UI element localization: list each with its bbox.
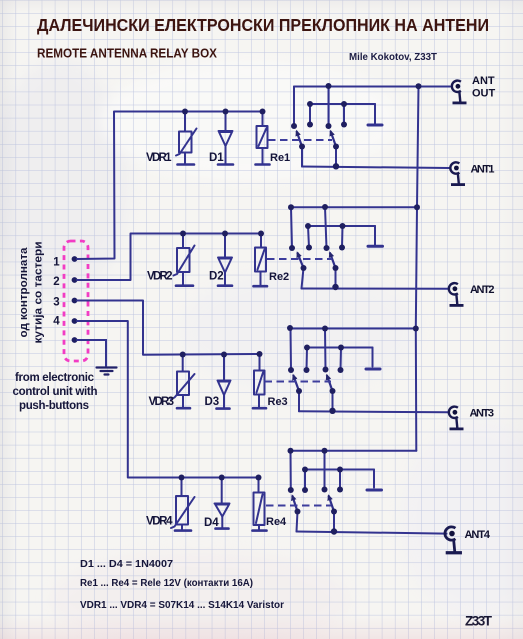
svg-text:Re4: Re4 <box>266 516 287 528</box>
svg-text:D1: D1 <box>209 152 224 164</box>
svg-text:Re1 ... Re4 = Rele 12V (контак: Re1 ... Re4 = Rele 12V (контакти 16А) <box>80 577 253 589</box>
svg-text:VDR1 ... VDR4 = S07K14 ... S1: VDR1 ... VDR4 = S07K14 ... S14K14 Varist… <box>80 599 284 611</box>
svg-text:кутија со тастери: кутија со тастери <box>33 242 45 344</box>
svg-text:push-buttons: push-buttons <box>19 400 89 412</box>
svg-text:ANT: ANT <box>472 75 495 87</box>
svg-text:од контролната: од контролната <box>18 247 30 338</box>
svg-text:D3: D3 <box>205 396 220 408</box>
svg-text:from electronic: from electronic <box>15 372 95 384</box>
svg-text:REMOTE ANTENNA RELAY BOX: REMOTE ANTENNA RELAY BOX <box>37 47 218 61</box>
svg-text:ДАЛЕЧИНСКИ ЕЛЕКТРОНСКИ ПРЕКЛОП: ДАЛЕЧИНСКИ ЕЛЕКТРОНСКИ ПРЕКЛОПНИК НА АНТ… <box>37 15 489 35</box>
svg-text:VDR2: VDR2 <box>147 271 173 283</box>
svg-text:Re3: Re3 <box>268 396 288 408</box>
svg-text:ANT1: ANT1 <box>471 164 495 176</box>
svg-text:Re1: Re1 <box>270 152 290 164</box>
svg-text:4: 4 <box>53 316 60 328</box>
svg-text:Re2: Re2 <box>269 271 289 283</box>
svg-text:VDR4: VDR4 <box>146 516 173 528</box>
svg-text:ANT2: ANT2 <box>470 284 495 296</box>
svg-text:control unit with: control unit with <box>13 386 98 398</box>
svg-text:Mile Kokotov, Z33T: Mile Kokotov, Z33T <box>349 52 437 63</box>
svg-text:D1 ... D4 = 1N4007: D1 ... D4 = 1N4007 <box>80 558 173 570</box>
svg-text:D4: D4 <box>204 517 219 529</box>
svg-text:D2: D2 <box>209 271 224 283</box>
svg-text:3: 3 <box>53 297 59 309</box>
svg-text:ANT4: ANT4 <box>465 529 491 541</box>
svg-text:1: 1 <box>53 257 60 269</box>
svg-text:OUT: OUT <box>472 88 496 100</box>
svg-text:ANT3: ANT3 <box>470 408 495 420</box>
svg-text:VDR1: VDR1 <box>146 152 172 164</box>
svg-text:2: 2 <box>53 276 59 288</box>
svg-text:VDR3: VDR3 <box>149 396 175 408</box>
